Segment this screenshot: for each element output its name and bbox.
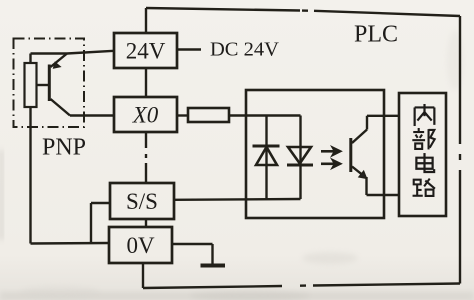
PLC enclosure left border chain segment X0 to S/S bbox=[145, 132, 147, 183]
wire 0V right to ground bbox=[172, 244, 213, 265]
wire sensor emitter rail to 24V bbox=[31, 51, 115, 63]
terminal box 24V bbox=[114, 33, 177, 68]
svg-text:S/S: S/S bbox=[126, 189, 158, 214]
wire S/S to optocoupler LED cathode rail bbox=[174, 198, 301, 201]
svg-text:PLC: PLC bbox=[354, 22, 398, 48]
transistor Q1 emitter diagonal bbox=[51, 54, 68, 68]
optocoupler box U1 bbox=[246, 90, 384, 218]
wire X0 to resistor R1 bbox=[177, 114, 188, 116]
diode D1 cathode bar bbox=[253, 145, 280, 148]
light arrow upper bbox=[321, 150, 334, 153]
terminal box S/S bbox=[110, 183, 174, 219]
internal circuit box bbox=[399, 93, 446, 216]
PLC enclosure right border (chain line) bbox=[459, 16, 461, 284]
terminal box X0 bbox=[114, 97, 177, 132]
transistor Q1 emitter arrowhead (points to base, PNP) bbox=[54, 63, 60, 68]
transistor Q1 collector diagonal bbox=[51, 99, 71, 116]
wire sensing element to base bbox=[37, 84, 49, 86]
wire bottom lead to 0V bbox=[31, 242, 110, 245]
wire 24V right to DC 24V bbox=[177, 48, 201, 50]
phototransistor collector diagonal and wire to internal circuit bbox=[352, 116, 399, 143]
PLC enclosure left border segment below 0V bbox=[142, 263, 144, 288]
diode D1 triangle (pointing up) bbox=[256, 147, 277, 165]
diode D2 cathode bar bbox=[287, 164, 313, 167]
svg-text:X0: X0 bbox=[132, 103, 159, 128]
sensing element rectangle inside sensor bbox=[25, 63, 37, 107]
PLC enclosure left border segment S/S to 0V bbox=[145, 219, 147, 227]
sensor enclosure (dash-dot box) bbox=[14, 39, 85, 128]
transistor Q1 base bar bbox=[48, 65, 51, 102]
hand-drawn CJK label: 路 bbox=[413, 179, 435, 196]
wire LED anode rail (entry + loop top) bbox=[246, 114, 301, 116]
hand-drawn CJK label: 部 bbox=[412, 128, 434, 149]
wire resistor R1 to optocoupler bbox=[229, 114, 246, 116]
PLC enclosure bottom border (chain line) bbox=[143, 284, 460, 289]
phototransistor base bar bbox=[349, 138, 352, 172]
wire sensor bottom lead down bbox=[29, 107, 31, 244]
wire LED loop right branch bbox=[299, 116, 301, 200]
PLC enclosure left border segment above 24V bbox=[145, 8, 147, 33]
wire LED loop left branch bbox=[265, 116, 267, 200]
wire emitter to internal circuit bbox=[367, 177, 400, 195]
svg-text:DC 24V: DC 24V bbox=[210, 39, 279, 61]
ground bar bbox=[201, 264, 226, 268]
terminal box 0V bbox=[109, 227, 172, 263]
PLC enclosure top border (chain line) bbox=[146, 8, 460, 16]
wire jog S/S to 0V rail bbox=[90, 203, 92, 243]
svg-text:0V: 0V bbox=[126, 233, 155, 258]
phototransistor emitter diagonal bbox=[352, 167, 364, 176]
wire sensor collector to X0 bbox=[70, 114, 114, 116]
wire into S/S left bbox=[91, 202, 110, 204]
hand-drawn CJK label: 内 bbox=[415, 104, 435, 126]
PLC enclosure left border segment 24V to X0 bbox=[145, 68, 147, 97]
svg-text:PNP: PNP bbox=[42, 135, 86, 161]
resistor R1 bbox=[188, 108, 229, 122]
diode D2 triangle (pointing down, LED) bbox=[288, 147, 311, 164]
svg-text:24V: 24V bbox=[126, 39, 166, 64]
hand-drawn CJK label: 电 bbox=[416, 153, 434, 172]
phototransistor emitter arrowhead bbox=[359, 171, 366, 178]
light arrow lower bbox=[321, 163, 334, 166]
